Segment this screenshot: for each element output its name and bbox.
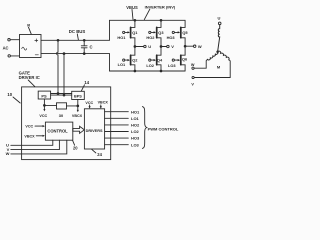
svg-text:V: V (191, 83, 194, 87)
svg-text:20: 20 (73, 145, 78, 150)
bus arrow control to drivers (73, 126, 85, 133)
drivers box 24 (84, 109, 104, 149)
control box 20 (45, 122, 72, 140)
rectifier minus sign (35, 54, 38, 56)
svg-text:Q3: Q3 (158, 30, 164, 35)
node AC input terminal top (8, 39, 10, 41)
rectifier AC wave symbol (22, 47, 27, 50)
svg-text:DC BUS: DC BUS (69, 29, 86, 34)
svg-text:HO3: HO3 (167, 35, 176, 40)
transistor Q1 (131, 20, 135, 27)
svg-text:LO2: LO2 (131, 129, 140, 134)
transistor Q3 (157, 20, 161, 27)
brace PWM CONTROL (142, 107, 146, 149)
svg-text:LO1: LO1 (118, 62, 126, 67)
wire (10, 55, 19, 57)
motor winding V coil (218, 51, 230, 60)
svg-text:LO3: LO3 (168, 63, 176, 68)
svg-text:HO2: HO2 (131, 123, 140, 128)
leader 20 (73, 140, 75, 145)
wire box30 to BPS output (67, 105, 78, 107)
motor winding W coil (208, 52, 218, 60)
node AC input terminal bottom (8, 55, 10, 57)
gate driver IC outer box (22, 87, 111, 160)
svg-text:INVERTER (INV): INVERTER (INV) (145, 5, 176, 10)
svg-text:10: 10 (7, 92, 12, 97)
transistor Q2 (131, 47, 135, 56)
wire PS output VCC (43, 99, 45, 110)
wire PS to BPS (51, 93, 72, 95)
svg-text:DRIVER IC: DRIVER IC (19, 75, 40, 80)
node U midpoint (134, 46, 136, 48)
svg-text:VBCX: VBCX (98, 101, 109, 105)
wire drop to PS with hop over minus bus (57, 39, 59, 41)
svg-text:U: U (218, 16, 221, 21)
svg-text:HO1: HO1 (117, 35, 126, 40)
wire LO1 out (105, 117, 129, 119)
node V midpoint (160, 46, 162, 48)
leader 10 (13, 97, 20, 103)
leader 14 (81, 85, 84, 91)
svg-text:W: W (191, 63, 195, 67)
leader VBUS (132, 9, 133, 19)
svg-text:HO1: HO1 (131, 109, 140, 114)
leader GATE DRIVER IC (28, 80, 35, 87)
wire HO2 out (105, 124, 129, 126)
wire drop to BPS (63, 53, 65, 55)
leader R (28, 27, 31, 34)
svg-text:PS: PS (41, 93, 47, 98)
svg-text:AC: AC (3, 46, 9, 51)
motor star node (217, 51, 219, 53)
svg-text:R: R (27, 22, 30, 27)
motor terminal V (192, 76, 194, 78)
svg-text:Q4: Q4 (157, 58, 163, 63)
svg-text:VCC: VCC (39, 114, 47, 118)
rectifier plus sign (35, 39, 38, 42)
wire HO1 out (105, 111, 129, 113)
wire BPS output VBCX (77, 100, 79, 111)
bootstrap power supply BPS box (72, 91, 85, 99)
svg-text:CONTROL: CONTROL (47, 129, 68, 134)
wire DC bus plus (41, 20, 110, 40)
svg-text:14: 14 (84, 80, 89, 85)
leader INVERTER (144, 9, 150, 19)
node W midpoint (184, 45, 186, 47)
svg-text:LO3: LO3 (131, 142, 140, 147)
svg-text:V: V (171, 44, 174, 49)
motor winding U (218, 25, 220, 52)
wire (10, 39, 19, 41)
svg-text:VBCX: VBCX (24, 134, 35, 138)
svg-text:24: 24 (97, 152, 102, 157)
svg-text:PWM CONTROL: PWM CONTROL (148, 127, 179, 132)
transistor Q5 (181, 20, 185, 27)
regulator box 30 (57, 103, 67, 109)
wire HO3 out (105, 137, 129, 139)
svg-text:U: U (148, 44, 151, 49)
svg-text:HO2: HO2 (146, 35, 155, 40)
svg-text:HO3: HO3 (131, 136, 140, 141)
svg-text:W: W (198, 44, 202, 49)
inverter bottom rail (110, 70, 186, 72)
wire DC bus minus (41, 54, 110, 71)
svg-text:DRIVERS: DRIVERS (86, 129, 103, 133)
wire LO3 out (105, 144, 129, 146)
wire LO2 out (105, 131, 129, 133)
svg-text:LO1: LO1 (131, 116, 140, 121)
svg-text:M: M (217, 65, 221, 70)
svg-text:Q1: Q1 (132, 30, 138, 35)
svg-text:Q5: Q5 (182, 30, 188, 35)
rectifier R box (20, 35, 42, 58)
svg-text:Q6: Q6 (182, 56, 188, 61)
svg-text:VCC: VCC (25, 125, 33, 129)
leader DC BUS (77, 34, 78, 40)
inverter top rail VBUS (110, 19, 186, 21)
svg-text:30: 30 (59, 113, 63, 118)
svg-text:C: C (90, 44, 93, 49)
leader 24 (92, 149, 96, 153)
svg-text:LO2: LO2 (146, 63, 154, 68)
transistor Q6 (181, 46, 185, 55)
svg-text:Q2: Q2 (132, 58, 138, 63)
svg-text:W: W (6, 151, 10, 156)
capacitor C (83, 39, 85, 41)
transistor Q4 (157, 47, 161, 56)
svg-text:BPS: BPS (74, 95, 82, 99)
power supply PS box (38, 91, 50, 99)
svg-text:VBCX: VBCX (72, 114, 83, 118)
